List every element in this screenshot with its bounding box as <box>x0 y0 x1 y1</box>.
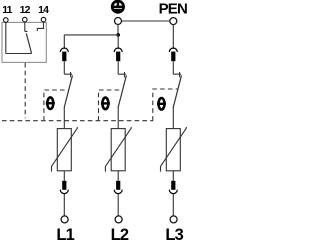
branch 2 top plug socket arc <box>114 48 122 52</box>
branch 1 top plug socket arc <box>60 48 68 52</box>
PE terminal circle <box>115 18 122 25</box>
branch 3 wire blade to varistor <box>172 107 174 129</box>
label L1 <box>56 226 74 241</box>
branch 3 wire pin to switch <box>172 61 174 74</box>
switch blade K1 <box>26 33 31 53</box>
PE symbol (earthed protective conductor) <box>112 1 124 13</box>
branch 1 wire blade to varistor <box>63 107 65 129</box>
branch 3 thermal disconnect theta <box>157 98 166 110</box>
branch 3 varistor diagonal <box>161 127 187 172</box>
junction node <box>116 33 120 37</box>
branch 3 bottom plug pin <box>171 181 175 190</box>
svg-text:L1: L1 <box>56 226 74 241</box>
branch 3 varistor body <box>166 129 180 171</box>
branch 2 bottom plug pin <box>116 181 120 190</box>
branch 1 disconnector blade <box>64 75 72 107</box>
branch 2 top plug pin <box>116 52 120 62</box>
branch 2 bottom plug socket arc <box>114 190 122 194</box>
branch 1 thermal disconnect theta <box>46 97 55 109</box>
label terminal 12 <box>20 4 31 16</box>
wire PE circle down to junction <box>117 25 119 35</box>
label terminal 11 <box>2 4 12 16</box>
wire branch 1 drop <box>63 35 65 49</box>
branch 2 wire pin to switch <box>117 61 119 74</box>
dashed mechanical linkage from contact box <box>24 63 26 118</box>
wire from terminal 11 down left side <box>5 22 7 53</box>
branch 2 wire to terminal <box>117 194 119 216</box>
svg-text:L2: L2 <box>111 226 129 241</box>
dashed linkage box branch 1 <box>44 90 69 121</box>
dashed linkage box branch 3 <box>153 89 178 121</box>
branch 1 wire varistor to pin <box>63 171 65 181</box>
branch 1 wire pin to switch <box>63 61 65 74</box>
branch 2 wire blade to varistor <box>117 107 119 129</box>
branch 3 top plug pin <box>171 52 175 62</box>
branch 1 top plug pin <box>62 52 66 62</box>
dashed linkage box branch 2 <box>99 90 123 121</box>
svg-text:PEN: PEN <box>159 0 187 17</box>
terminal 11 circle <box>4 18 9 23</box>
branch 2 thermal disconnect theta <box>101 98 110 110</box>
wire top bus PE to PEN <box>122 20 170 22</box>
svg-text:L3: L3 <box>165 226 183 241</box>
branch 3 bottom plug socket arc <box>169 190 177 194</box>
terminal L2 circle <box>115 216 122 223</box>
wire lower bus to branch 1 <box>64 34 118 36</box>
terminal L1 circle <box>61 216 68 223</box>
fixed contact 14 hook <box>37 22 43 31</box>
remote signalling contact box K1 <box>2 22 46 62</box>
svg-text:14: 14 <box>38 4 49 16</box>
branch 3 wire to terminal <box>172 194 174 216</box>
branch 1 varistor body <box>57 129 71 171</box>
branch 1 bottom plug socket arc <box>60 190 68 194</box>
wire branch 2 drop <box>117 35 119 49</box>
svg-text:11: 11 <box>2 4 12 16</box>
terminal L3 circle <box>170 216 177 223</box>
PEN terminal circle <box>170 18 177 25</box>
wire PEN down to branch 3 <box>172 25 174 49</box>
svg-text:12: 12 <box>20 4 31 16</box>
branch 2 disconnector blade <box>118 75 126 107</box>
label terminal 14 <box>38 4 49 16</box>
branch 1 wire to terminal <box>63 194 65 216</box>
label L3 <box>165 226 183 241</box>
branch 2 varistor diagonal <box>105 127 131 172</box>
branch 3 top plug socket arc <box>169 48 177 52</box>
branch 1 disconnector fixed contact <box>64 72 72 77</box>
wire bottom horizontal of contact <box>6 53 32 55</box>
branch 3 wire varistor to pin <box>172 171 174 181</box>
branch 2 wire varistor to pin <box>117 171 119 181</box>
branch 3 disconnector fixed contact <box>173 72 181 77</box>
wire stub from terminal 12 <box>25 22 28 32</box>
branch 3 disconnector blade <box>173 75 181 107</box>
branch 1 varistor diagonal <box>52 127 78 172</box>
branch 1 bottom plug pin <box>62 181 66 190</box>
label PEN <box>159 0 187 17</box>
terminal 14 circle <box>41 17 46 22</box>
branch 2 varistor body <box>111 129 125 171</box>
terminal 12 circle <box>23 17 28 22</box>
branch 2 disconnector fixed contact <box>118 72 126 77</box>
dashed coupling line to disconnectors <box>2 120 153 122</box>
label L2 <box>111 226 129 241</box>
